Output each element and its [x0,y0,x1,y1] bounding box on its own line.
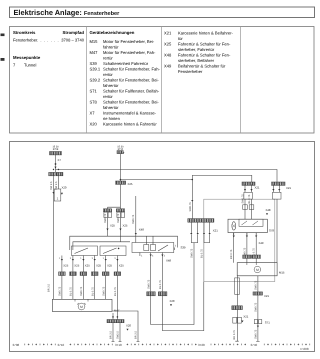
wires into M15 [247,258,256,262]
svg-text:SW2.5: SW2.5 [117,331,120,339]
svg-text:rertür: rertür [103,56,113,61]
wire code labels [241,194,251,204]
svg-text:Karosserie hinten & Fahrertür: Karosserie hinten & Fahrertür [103,122,157,127]
switch S39.1 box [72,246,98,256]
node bus2 joins riser [192,179,194,181]
svg-text:SW0.75: SW0.75 [189,202,192,212]
wire bus1 [56,170,278,183]
svg-text:Stromkreis: Stromkreis [13,30,36,35]
svg-text:tür: tür [178,36,183,41]
svg-text:X48: X48 [266,208,271,212]
svg-text:X25: X25 [96,264,101,268]
arrow [135,233,137,235]
arrow on feed wire [52,192,54,194]
svg-text:M15: M15 [279,271,285,275]
wire 3 [82,256,84,300]
svg-text:X25: X25 [128,182,133,186]
svg-text:X48: X48 [164,53,172,58]
svg-text:S39.2: S39.2 [90,78,101,83]
connector X21 bar left output [232,306,243,310]
motor M47 box [52,299,112,311]
svg-text:X25: X25 [63,264,68,268]
page title bar [10,7,315,18]
svg-text:SW0.75: SW0.75 [104,213,107,223]
arrow [170,304,172,306]
legend table box [10,27,315,134]
S39.2 outputs cross-car wire 1 [151,243,194,325]
svg-text:SW0.75: SW0.75 [191,248,194,258]
svg-text:Schalter für Fensterheber, Bei: Schalter für Fensterheber, Bei- [103,78,159,83]
wire M47 right stub [112,311,138,342]
svg-text:P-008: P-008 [301,347,309,351]
legend column 1 [13,30,85,68]
svg-text:Fahrertür & Schalter für Fen-: Fahrertür & Schalter für Fen- [178,53,231,58]
schematic frame [10,142,315,352]
svg-text:S71: S71 [265,321,270,325]
svg-text:X20: X20 [170,299,175,303]
svg-text:BL 0.75: BL 0.75 [200,249,203,258]
svg-text:X48: X48 [166,259,171,263]
svg-text:X20: X20 [126,324,131,328]
pins under S39.2 [139,253,141,257]
svg-text:SW0.75: SW0.75 [102,286,105,296]
pin pair merge [191,235,209,243]
svg-text:X7: X7 [90,111,96,116]
wire X48 drop [135,196,137,243]
wire bus2 [121,179,193,181]
svg-text:S39: S39 [90,61,98,66]
svg-text:SW0.75: SW0.75 [147,279,150,289]
M15 output wire right [257,276,259,342]
svg-text:SW0.75: SW0.75 [117,213,120,223]
svg-text:Fahrertür & Schalter für Fen-: Fahrertür & Schalter für Fen- [178,42,231,47]
svg-text:X21: X21 [286,186,291,190]
scan edge marks [1,34,5,37]
svg-text:X49: X49 [164,64,172,69]
node [118,248,120,250]
svg-text:Fensterheber: Fensterheber [178,69,203,74]
svg-text:Fensterheber: Fensterheber [13,38,38,43]
svg-text:X25: X25 [164,42,172,47]
svg-text:SW 2.5: SW 2.5 [55,181,58,190]
svg-text:M47: M47 [90,50,99,55]
motor M15 box [237,263,277,276]
wire M47 bottom out [112,313,114,320]
svg-text:X20: X20 [62,186,67,190]
arrows [272,189,280,191]
svg-text:X21: X21 [264,294,269,298]
connector X7 bar center [117,151,123,154]
svg-text:BR 2.5: BR 2.5 [110,331,113,339]
arrow on riser [191,200,193,202]
inline box [273,192,282,199]
svg-text:BR 0.75: BR 0.75 [233,330,236,340]
svg-text:sterheber, Fahrertür: sterheber, Fahrertür [178,47,215,52]
svg-text:Strompfad: Strompfad [63,30,85,35]
arrows on pins [190,233,211,235]
switch S78 box [228,219,267,232]
connector X20 bar bottom [107,320,124,323]
svg-text:SW0.75: SW0.75 [59,286,62,296]
arrows [106,229,121,231]
svg-text:3718: 3718 [115,343,122,347]
switch S71 inline [254,320,257,324]
svg-text:3728: 3728 [198,343,205,347]
svg-text:3708 – 3740: 3708 – 3740 [61,38,84,43]
plug pair 2 [117,212,120,217]
svg-text:Schalter für Fensterheber, Fah: Schalter für Fensterheber, Fah- [103,67,161,72]
svg-text:X7: X7 [58,158,62,162]
svg-text:SW0.75: SW0.75 [254,302,257,312]
wire code labels [110,331,138,339]
wire 4 [94,256,96,300]
svg-text:3710: 3710 [58,343,65,347]
legend column 3 [164,31,233,75]
switch unit S39 feed line 1 [70,236,178,250]
M15 outputs: wire left [236,276,238,341]
switch S39.2 box [132,243,174,253]
svg-text:rertür: rertür [103,94,113,99]
X25 connector bars row [59,272,66,276]
arrows [244,189,253,191]
node bus2 [120,179,122,181]
inline connector box [235,278,240,294]
wire code labels below bars [59,286,118,296]
svg-text:M: M [256,268,259,272]
connector X21 bar bus drop [272,182,286,185]
wire bus drop to M15 [273,184,279,262]
wires into S78 [245,184,252,219]
wire left feed [55,155,57,173]
connector X21 bar passenger top [242,182,255,185]
switch middle box [100,246,126,256]
X21 bar on right output [253,292,263,295]
svg-text:X25: X25 [107,264,112,268]
arrows on outputs [61,259,119,261]
svg-text:3708: 3708 [13,343,20,347]
svg-text:X48: X48 [139,228,144,232]
wire split jog to plug pair 1 [108,207,121,209]
svg-text:Motor für Fensterheber, Bei-: Motor für Fensterheber, Bei- [103,39,155,44]
svg-text:sterheber, Beifahrer: sterheber, Beifahrer [178,58,215,63]
X25 labels on outputs [63,264,124,268]
terminal label center feed [117,145,124,151]
svg-text:Schaltereinheit Fahrertür: Schaltereinheit Fahrertür [103,61,149,66]
terminal 30 label left feed [52,145,59,151]
svg-text:X25: X25 [74,264,79,268]
wire S78 left output [233,233,235,263]
node junction [55,163,57,165]
arrows [150,255,164,257]
connector X49 bars [243,255,252,258]
svg-text:BL 0.75: BL 0.75 [248,194,251,203]
svg-text:X25: X25 [123,224,128,228]
connector X21 long bar door left [188,219,214,223]
svg-text:Schalter für Fallfenster, Beif: Schalter für Fallfenster, Beifah- [103,89,160,94]
wire to M47 [53,176,55,299]
svg-text:X25: X25 [119,264,124,268]
wire 5 [105,256,107,300]
svg-text:BR 2.5: BR 2.5 [135,331,138,339]
arrow down [54,167,56,169]
passenger door boundary [204,199,275,281]
svg-text:X25: X25 [85,264,90,268]
svg-text:S39.1: S39.1 [90,67,101,72]
wire down pair2 [120,218,122,242]
svg-text:SW 2.5: SW 2.5 [50,181,53,190]
svg-text:SW0.75: SW0.75 [132,214,135,224]
wire down pair1 [107,218,109,237]
wires to rail [113,323,120,342]
svg-text:X49: X49 [259,241,264,245]
current track rail [25,344,310,346]
inline link 1 [54,189,61,201]
S78 outputs [247,233,256,255]
svg-text:Karosserie hinten & Beifahrer-: Karosserie hinten & Beifahrer- [178,31,233,36]
svg-text:X21: X21 [213,229,218,233]
wire center feed [119,154,121,209]
svg-text:BL 0.75: BL 0.75 [70,287,73,296]
X21 pins [191,222,209,233]
plug bar pair 2 [116,209,124,212]
svg-text:X25: X25 [110,224,115,228]
svg-text:Motor für Fensterheber, Fah-: Motor für Fensterheber, Fah- [103,50,156,55]
connector X20 bar left a [49,172,56,175]
plug bar pair 1 [103,209,111,212]
svg-text:X20: X20 [90,122,98,127]
plug boxes [233,317,237,323]
svg-text:BR 0.75: BR 0.75 [230,249,233,259]
svg-text:Schalter für Fensterheber, Bei: Schalter für Fensterheber, Bei- [103,100,159,105]
svg-text:. . . . . . .: . . . . . . . [37,38,59,43]
svg-text:fahrertür: fahrertür [103,83,119,88]
svg-text:X21: X21 [243,314,248,318]
wire to box1 [58,176,60,189]
node [112,316,114,318]
svg-text:SW0.75: SW0.75 [80,286,83,296]
plug boxes X48 [243,205,248,210]
cross-car wire 2 [162,243,203,331]
svg-text:S78: S78 [90,100,98,105]
wire code labels [243,247,255,257]
lamp in S78 [232,222,236,230]
plug pair 1 [104,212,107,217]
node dots [53,169,54,170]
svg-text:Gerätebezeichnungen: Gerätebezeichnungen [90,30,135,35]
pins below S78 [234,233,256,235]
svg-text:BL 0.75: BL 0.75 [114,287,117,296]
svg-text:SW0.75: SW0.75 [254,280,257,290]
connector X7 bar left [50,152,62,155]
svg-text:M: M [80,305,83,309]
svg-text:S71: S71 [90,89,98,94]
connector X48 bars [147,292,156,296]
svg-text:S39: S39 [181,246,186,250]
svg-text:Beifahrertür & Schalter für: Beifahrertür & Schalter für [178,64,226,69]
arrow [61,193,63,195]
svg-text:rie hinten: rie hinten [103,116,121,121]
connector X25 bar center [116,181,126,184]
svg-text:M47: M47 [114,309,120,313]
legend column 2 [90,30,161,127]
svg-text:SW0.75: SW0.75 [254,329,257,339]
wire 6 [116,256,118,320]
pin tick [174,248,176,251]
plug box [244,192,252,199]
wire 2 [72,256,74,300]
switch sub-box [239,219,263,226]
wire code labels [48,181,59,292]
arrow [126,329,128,331]
svg-text:Tunnel: Tunnel [24,63,36,68]
svg-text:fahrertür: fahrertür [103,45,119,50]
svg-text:BL 0.75: BL 0.75 [91,287,94,296]
wire code labels [104,213,120,223]
svg-text:Instrumententafel & Karosse-: Instrumententafel & Karosse- [103,111,157,116]
svg-text:Messepunkte: Messepunkte [13,55,41,60]
arrow tick [123,152,125,153]
svg-text:X21: X21 [164,31,172,36]
pin digits [59,257,117,260]
svg-text:fahrertür: fahrertür [103,105,119,110]
svg-text:rertür: rertür [103,72,113,77]
switch unit S39 feed line 2 [73,242,130,250]
wire code labels [191,248,204,258]
wire riser to X21 feed [192,175,252,218]
wire code labels [147,279,162,289]
S39 outputs: wire 1 [61,256,63,300]
svg-text:BL 0.75: BL 0.75 [159,280,162,289]
svg-text:S78: S78 [269,229,274,233]
svg-text:M15: M15 [90,39,99,44]
svg-text:SW0.75: SW0.75 [241,194,244,204]
svg-text:X21: X21 [255,186,260,190]
svg-text:BR 2.5: BR 2.5 [48,284,51,292]
svg-text:3708: 3708 [53,148,59,151]
svg-text:3740: 3740 [251,343,258,347]
connector X20 bar left b [56,172,63,175]
rail end bars [235,340,259,342]
arrow [241,321,243,323]
